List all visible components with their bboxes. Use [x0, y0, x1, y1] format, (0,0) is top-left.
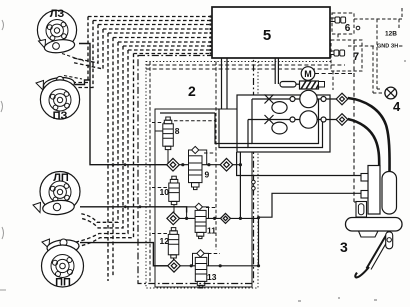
svg-text:3: 3	[340, 239, 348, 255]
booster base	[359, 231, 379, 237]
wire 12V supply	[354, 8, 402, 28]
svg-text:13: 13	[207, 272, 217, 282]
reservoir	[382, 172, 397, 215]
scan noise marks	[0, 20, 6, 290]
wire sensor ЛЗ pair	[71, 25, 103, 70]
wire GND	[338, 34, 404, 46]
svg-text:8: 8	[175, 126, 180, 136]
orifice diamond row A right	[220, 158, 233, 171]
pedal arm	[367, 232, 389, 269]
connector 6 terminals	[335, 17, 340, 23]
svg-text:12: 12	[160, 236, 170, 246]
pump element 1	[290, 97, 295, 102]
wire motor to connector 7	[315, 40, 358, 202]
node	[356, 26, 360, 30]
orifice diamond row B left	[167, 212, 180, 225]
stop switch bracket	[356, 202, 367, 218]
valve 12 inlet (solenoid)	[168, 228, 179, 260]
master cylinder body	[368, 166, 380, 215]
pipe master cylinder circuit 2	[259, 193, 362, 217]
orifice diamond row A left	[167, 158, 180, 171]
wire solenoid drops inside box 2	[150, 62, 220, 284]
wire sensor ПЗ pair	[72, 17, 93, 88]
wheel ПП	[42, 239, 84, 287]
valve 10 inlet (solenoid)	[169, 176, 180, 212]
pipe pump return U2	[248, 120, 323, 148]
damper X circuit 2	[265, 115, 274, 124]
hose to reservoir (thick curve)	[348, 98, 390, 172]
hose to master cylinder (thick curve)	[348, 119, 379, 166]
wire extra harness verticals	[108, 33, 113, 281]
box 2 dash-dot border (hydraulic modulator)	[138, 56, 254, 284]
valve 11 outlet (solenoid)	[187, 203, 209, 238]
pipe row A hydraulic line	[167, 164, 241, 166]
pump element 2	[290, 117, 295, 122]
wire sensor ЛП pair	[80, 42, 123, 228]
restrictor diamond outlet 2	[336, 114, 348, 126]
lamp 4	[385, 87, 397, 99]
booster body	[346, 218, 403, 232]
wire ECU drops to pump relay	[274, 58, 276, 84]
pipe row A to pump box	[239, 152, 241, 218]
wire dashed runs below block 5 to connectors	[146, 65, 345, 69]
wire connector 7 to pressure switch	[332, 71, 334, 90]
svg-text:ЛЗ: ЛЗ	[50, 8, 65, 20]
pipe pump circuit 2	[248, 119, 338, 121]
pipe rear circuit from wheels ЛЗ+ПЗ	[79, 44, 167, 165]
wire sensor pigtails	[62, 54, 84, 80]
dotted unit border	[146, 62, 258, 289]
svg-text:10: 10	[160, 187, 170, 197]
pedal foot pad	[355, 267, 369, 277]
svg-text:2: 2	[188, 83, 196, 99]
wheel ЛЗ	[37, 10, 76, 54]
pipe front-right circuit ПП	[80, 243, 168, 266]
wire stubs block 5 right edge to connectors	[330, 18, 335, 55]
orifice diamond row C left	[168, 260, 181, 273]
pedal mount	[386, 232, 393, 249]
svg-text:M: M	[304, 69, 312, 79]
ECU block 5	[212, 7, 330, 58]
pipe pump return U1	[252, 99, 319, 144]
inner valve block solid box	[155, 109, 252, 287]
pipe row C riser to circuit 2	[258, 217, 260, 266]
wheel ПЗ	[36, 76, 80, 119]
svg-text:9: 9	[205, 170, 210, 180]
wire terminal ticks on block 5 left edge	[210, 15, 213, 54]
svg-text:ЛП: ЛП	[53, 172, 69, 184]
wheel ЛП	[33, 172, 80, 216]
svg-text:7: 7	[353, 51, 359, 63]
wire sensor bundle horizontal runs to ECU block 5	[88, 17, 212, 54]
svg-text:12В: 12В	[385, 31, 397, 38]
accumulator oval circuit 2	[272, 122, 287, 134]
pump unit solid box	[237, 95, 330, 152]
pipe front-left circuit ЛП	[80, 207, 187, 213]
valve 13 outlet (solenoid)	[193, 250, 209, 288]
valve 9 outlet (solenoid)	[189, 146, 207, 189]
accumulator oval circuit 1	[272, 102, 287, 114]
svg-text:6: 6	[345, 23, 351, 34]
MC port 2	[361, 191, 368, 199]
motor M	[301, 67, 315, 81]
valve 8 inlet (solenoid)	[155, 117, 173, 165]
svg-text:ПЗ: ПЗ	[53, 110, 68, 122]
pipe pump circuit 1	[252, 98, 338, 100]
connector 7 dashed box	[331, 40, 362, 71]
pipe row C hydraulic line	[153, 265, 258, 267]
wire sensor ПП pair	[74, 50, 134, 247]
damper X circuit 1	[265, 95, 274, 104]
restrictor diamond outlet 1	[336, 93, 348, 105]
relay capsule	[280, 82, 296, 88]
MC port 1	[361, 174, 368, 182]
connector 7 terminals	[334, 50, 339, 56]
junction dots valve rows	[112, 163, 261, 267]
svg-text:ПП: ПП	[55, 277, 71, 289]
svg-text:5: 5	[263, 27, 271, 44]
wire to lamp	[373, 19, 385, 93]
wire ECU drops to valve block	[221, 58, 223, 109]
connector 6 dashed box	[332, 13, 354, 34]
orifice diamond row B right	[221, 213, 231, 223]
svg-text:GND ЗН: GND ЗН	[377, 44, 398, 50]
motor pump hatched block	[300, 81, 319, 89]
svg-text:4: 4	[393, 99, 401, 114]
node circles on modulator edge	[252, 180, 256, 184]
pipe master cylinder circuit 1	[237, 152, 361, 176]
svg-text:11: 11	[207, 226, 216, 236]
pipe row B hydraulic line	[167, 217, 259, 219]
